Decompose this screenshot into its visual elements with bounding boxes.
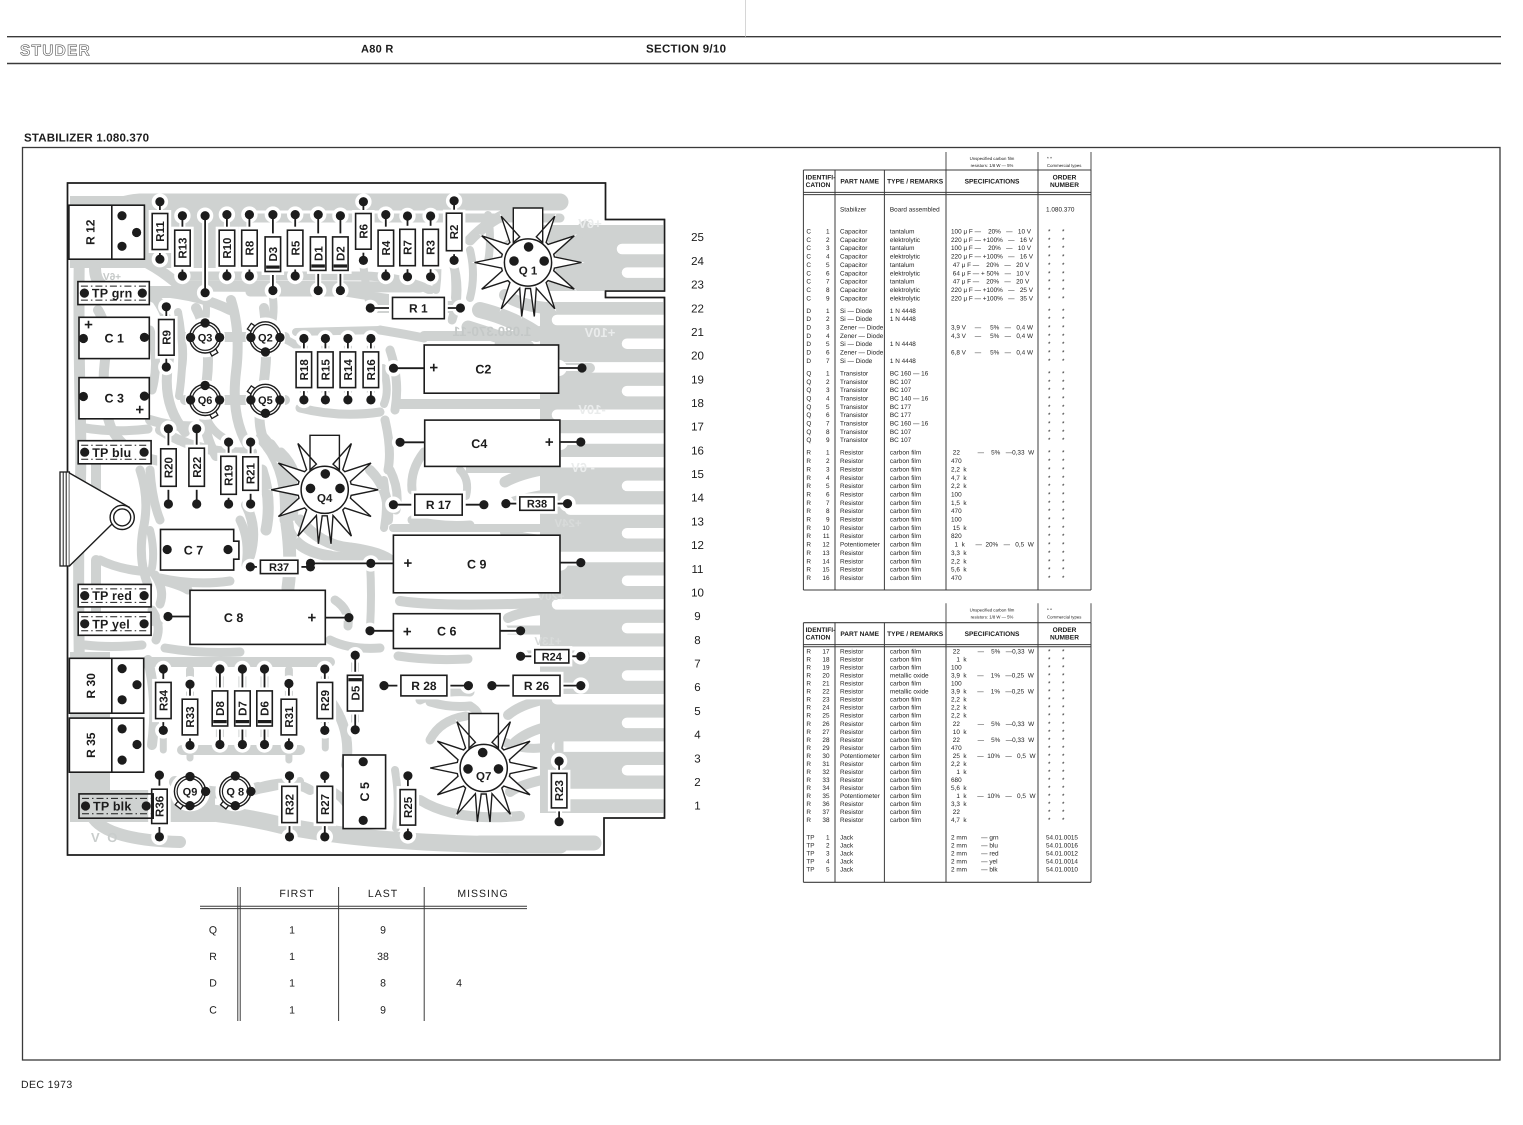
svg-text:carbon film: carbon film — [890, 801, 921, 808]
resistor R31 — [281, 675, 297, 753]
svg-text:22 — 5% —0,33 W: 22 — 5% —0,33 W — [951, 450, 1035, 457]
svg-text:BC 107: BC 107 — [890, 387, 912, 394]
svg-text:IDENTIFI-: IDENTIFI- — [806, 174, 836, 181]
svg-text:24: 24 — [822, 705, 830, 712]
header bottom rule — [7, 63, 1501, 65]
svg-text:D: D — [806, 358, 811, 365]
svg-text:6: 6 — [826, 492, 830, 499]
svg-text:R15: R15 — [321, 359, 333, 381]
svg-text:carbon film: carbon film — [890, 769, 921, 776]
svg-text:2: 2 — [826, 843, 830, 850]
svg-text:3: 3 — [826, 466, 830, 473]
svg-text:Q 8: Q 8 — [226, 787, 244, 799]
svg-text:34: 34 — [822, 785, 830, 792]
svg-text:35: 35 — [822, 793, 830, 800]
svg-text:Resistor: Resistor — [840, 475, 864, 482]
svg-text:19: 19 — [691, 374, 704, 386]
svg-text:4,7 k: 4,7 k — [951, 475, 967, 482]
resistor R23 — [551, 753, 567, 830]
svg-text:1: 1 — [694, 801, 700, 813]
svg-text:C: C — [806, 229, 811, 236]
capacitor C5 — [343, 755, 386, 829]
svg-text:9: 9 — [380, 1004, 386, 1016]
svg-text:C 7: C 7 — [184, 543, 204, 557]
diode D2 — [332, 208, 348, 299]
svg-text:D5: D5 — [350, 685, 362, 700]
svg-text:Stabilizer: Stabilizer — [840, 207, 867, 214]
svg-text:Capacitor: Capacitor — [840, 270, 868, 277]
svg-text:R: R — [806, 649, 811, 656]
svg-text:+: + — [545, 434, 554, 451]
svg-text:+10V: +10V — [584, 325, 615, 340]
svg-text:resistors: 1/8 W — 5%: resistors: 1/8 W — 5% — [971, 163, 1014, 168]
svg-text:1,5 k: 1,5 k — [951, 500, 967, 507]
svg-text:2: 2 — [826, 458, 830, 465]
svg-text:R36: R36 — [155, 796, 167, 817]
svg-text:elektrolytic: elektrolytic — [890, 270, 921, 277]
svg-text:R: R — [806, 550, 811, 557]
svg-text:carbon film: carbon film — [890, 508, 921, 515]
svg-text:Jack: Jack — [840, 858, 854, 865]
svg-text:NUMBER: NUMBER — [1050, 635, 1079, 642]
svg-text:13: 13 — [822, 550, 830, 557]
svg-text:carbon film: carbon film — [890, 713, 921, 720]
svg-text:R19: R19 — [224, 465, 236, 486]
svg-text:BC 160 — 16: BC 160 — 16 — [890, 370, 929, 377]
svg-text:Q: Q — [806, 379, 811, 386]
svg-text:C 5: C 5 — [358, 782, 372, 802]
svg-text:R: R — [806, 575, 811, 582]
svg-text:C: C — [806, 262, 811, 269]
svg-text:tantalum: tantalum — [890, 262, 915, 269]
svg-text:SPECIFICATIONS: SPECIFICATIONS — [965, 179, 1020, 186]
svg-text:R 35: R 35 — [84, 732, 98, 758]
svg-text:Capacitor: Capacitor — [840, 279, 868, 286]
svg-text:R4: R4 — [381, 240, 393, 255]
resistor R27 — [317, 768, 333, 846]
capacitor C1 — [79, 317, 150, 359]
svg-text:8: 8 — [826, 508, 830, 515]
svg-text:R33: R33 — [185, 706, 197, 727]
svg-text:19: 19 — [822, 665, 830, 672]
svg-text:3: 3 — [826, 245, 830, 252]
svg-text:carbon film: carbon film — [890, 475, 921, 482]
svg-text:Resistor: Resistor — [840, 500, 864, 507]
svg-text:Capacitor: Capacitor — [840, 295, 868, 302]
svg-text:+: + — [429, 360, 438, 377]
svg-text:IDENTIFI-: IDENTIFI- — [806, 627, 836, 634]
svg-text:TP: TP — [806, 835, 814, 842]
svg-text:R: R — [806, 713, 811, 720]
svg-text:R3: R3 — [426, 240, 438, 255]
svg-text:Resistor: Resistor — [840, 673, 864, 680]
svg-text:resistors: 1/8 W — 5%: resistors: 1/8 W — 5% — [971, 614, 1014, 619]
svg-text:Resistor: Resistor — [840, 550, 864, 557]
svg-text:- 6V: - 6V — [571, 460, 595, 475]
svg-text:C: C — [806, 254, 811, 261]
svg-text:Q3: Q3 — [198, 333, 213, 345]
svg-text:STABILIZER 1.080.370: STABILIZER 1.080.370 — [24, 133, 149, 145]
svg-text:R 26: R 26 — [524, 679, 550, 693]
svg-text:R: R — [806, 673, 811, 680]
test point TP red — [78, 584, 151, 607]
svg-text:2 mm — red: 2 mm — red — [951, 850, 999, 857]
svg-text:22: 22 — [951, 809, 960, 816]
resistor R33 — [182, 676, 198, 754]
svg-text:36: 36 — [822, 801, 830, 808]
svg-text:Transistor: Transistor — [840, 404, 869, 411]
svg-text:R 17: R 17 — [426, 498, 452, 512]
svg-text:carbon film: carbon film — [890, 550, 921, 557]
svg-text:18: 18 — [691, 398, 704, 410]
resistor R 28 — [376, 675, 477, 696]
svg-text:TP red: TP red — [92, 589, 132, 603]
svg-text:2: 2 — [826, 316, 830, 323]
svg-text:4: 4 — [826, 254, 830, 261]
svg-text:Resistor: Resistor — [840, 809, 864, 816]
svg-text:SECTION 9/10: SECTION 9/10 — [646, 44, 726, 56]
resistor R16 — [363, 330, 379, 408]
svg-text:elektrolytic: elektrolytic — [890, 237, 921, 244]
svg-text:metallic oxide: metallic oxide — [890, 673, 929, 680]
svg-text:2,2 k: 2,2 k — [951, 713, 967, 720]
svg-text:R: R — [806, 450, 811, 457]
svg-text:BC 107: BC 107 — [890, 379, 912, 386]
svg-text:C2: C2 — [475, 363, 491, 377]
svg-text:Zener — Diode: Zener — Diode — [840, 350, 884, 357]
svg-text:100: 100 — [951, 492, 962, 499]
svg-text:R: R — [806, 785, 811, 792]
svg-text:Potentiometer: Potentiometer — [840, 542, 881, 549]
svg-text:Resistor: Resistor — [840, 533, 864, 540]
svg-text:PART NAME: PART NAME — [840, 631, 879, 638]
svg-text:carbon film: carbon film — [890, 737, 921, 744]
svg-text:STUDER: STUDER — [20, 43, 91, 60]
svg-text:R24: R24 — [542, 651, 563, 663]
svg-text:R: R — [806, 517, 811, 524]
svg-text:carbon film: carbon film — [890, 525, 921, 532]
svg-text:R: R — [806, 777, 811, 784]
svg-text:D2: D2 — [336, 246, 348, 261]
resistor R2 — [446, 193, 462, 269]
svg-text:2,2 k: 2,2 k — [951, 761, 967, 768]
svg-text:6,8 V — 5% — 0,4 W: 6,8 V — 5% — 0,4 W — [951, 350, 1034, 357]
svg-text:tantalum: tantalum — [890, 279, 915, 286]
svg-text:64 μ F — + 50% — 10 V: 64 μ F — + 50% — 10 V — [951, 270, 1030, 277]
svg-text:25: 25 — [691, 232, 704, 244]
svg-text:carbon film: carbon film — [890, 517, 921, 524]
svg-text:R 12: R 12 — [84, 219, 98, 245]
svg-text:R: R — [806, 737, 811, 744]
page center tick — [745, 0, 747, 37]
svg-text:Transistor: Transistor — [840, 396, 869, 403]
svg-text:R 28: R 28 — [411, 679, 437, 693]
svg-text:Capacitor: Capacitor — [840, 262, 868, 269]
parts table 1 — [803, 152, 1091, 590]
svg-text:metallic oxide: metallic oxide — [890, 689, 929, 696]
svg-text:4: 4 — [826, 333, 830, 340]
svg-text:1: 1 — [289, 978, 295, 990]
resistor R13 — [174, 208, 190, 285]
svg-text:470: 470 — [951, 575, 962, 582]
resistor R22 — [189, 421, 205, 513]
svg-text:4,7 k: 4,7 k — [951, 817, 967, 824]
svg-text:R11: R11 — [155, 221, 167, 242]
svg-text:100 μ F — 20% — 10 V: 100 μ F — 20% — 10 V — [951, 245, 1032, 252]
svg-text:9: 9 — [826, 437, 830, 444]
svg-text:14: 14 — [822, 558, 830, 565]
svg-text:22 — 5% —0,33 W: 22 — 5% —0,33 W — [951, 649, 1035, 656]
svg-text:54.01.0014: 54.01.0014 — [1046, 858, 1078, 865]
svg-text:31: 31 — [822, 761, 830, 768]
svg-text:carbon film: carbon film — [890, 533, 921, 540]
svg-text:Unspecified carbon film: Unspecified carbon film — [970, 156, 1015, 161]
wire node W2 — [306, 555, 394, 571]
svg-text:carbon film: carbon film — [890, 753, 921, 760]
svg-text:Resistor: Resistor — [840, 745, 864, 752]
svg-text:+: + — [404, 555, 413, 572]
svg-text:9: 9 — [694, 611, 700, 623]
resistor R20 — [160, 421, 176, 513]
resistor R24 — [512, 648, 589, 664]
svg-text:1 k: 1 k — [951, 657, 967, 664]
svg-text:R: R — [806, 681, 811, 688]
svg-text:25: 25 — [822, 713, 830, 720]
svg-text:680: 680 — [951, 777, 962, 784]
svg-text:15: 15 — [691, 469, 704, 481]
svg-text:Jack: Jack — [840, 850, 854, 857]
svg-text:tantalum: tantalum — [890, 245, 915, 252]
svg-text:820: 820 — [951, 533, 962, 540]
resistor R15 — [317, 330, 333, 408]
svg-text:BC 177: BC 177 — [890, 412, 912, 419]
copper trace layer — [70, 196, 664, 845]
transistor Q8 — [215, 771, 255, 811]
svg-text:5,6 k: 5,6 k — [951, 567, 967, 574]
svg-text:Resistor: Resistor — [840, 681, 864, 688]
svg-text:TP: TP — [806, 866, 814, 873]
transistor Q3 — [185, 317, 225, 357]
transistor Q2 — [245, 317, 285, 357]
svg-text:1: 1 — [289, 1004, 295, 1016]
svg-text:Q: Q — [806, 429, 811, 436]
svg-text:1 k: 1 k — [951, 769, 967, 776]
svg-text:R: R — [806, 492, 811, 499]
header top rule — [7, 36, 1501, 38]
svg-text:7: 7 — [826, 279, 830, 286]
resistor R7 — [399, 208, 415, 285]
svg-text:Transistor: Transistor — [840, 370, 869, 377]
resistor R 1 — [362, 297, 469, 318]
resistor R37 — [242, 559, 319, 575]
svg-text:Si — Diode: Si — Diode — [840, 358, 873, 365]
svg-text:+: + — [135, 402, 144, 419]
svg-text:20: 20 — [822, 673, 830, 680]
svg-text:25 k — 10% — 0,5 W: 25 k — 10% — 0,5 W — [951, 753, 1036, 760]
svg-text:29: 29 — [822, 745, 830, 752]
diode D7 — [234, 661, 250, 753]
svg-text:Resistor: Resistor — [840, 697, 864, 704]
svg-text:R: R — [806, 769, 811, 776]
svg-text:Commercial types: Commercial types — [1047, 163, 1081, 168]
svg-text:Resistor: Resistor — [840, 713, 864, 720]
svg-text:carbon film: carbon film — [890, 649, 921, 656]
svg-text:1: 1 — [289, 925, 295, 937]
svg-text:R: R — [806, 745, 811, 752]
svg-text:38: 38 — [377, 951, 389, 963]
svg-text:2 mm — blu: 2 mm — blu — [951, 843, 998, 850]
svg-text:R: R — [806, 801, 811, 808]
svg-text:carbon film: carbon film — [890, 777, 921, 784]
svg-text:3: 3 — [694, 753, 700, 765]
resistor R6 — [355, 194, 371, 269]
svg-text:Q4: Q4 — [317, 493, 333, 505]
svg-text:+: + — [84, 317, 93, 334]
svg-text:Q5: Q5 — [258, 395, 273, 407]
svg-text:TP yel: TP yel — [92, 617, 130, 631]
svg-text:220 μ F — +100% — 35 V: 220 μ F — +100% — 35 V — [951, 295, 1034, 302]
svg-text:2 mm — grn: 2 mm — grn — [951, 835, 999, 842]
svg-text:carbon film: carbon film — [890, 809, 921, 816]
test point TP yel — [78, 612, 151, 635]
svg-text:Resistor: Resistor — [840, 567, 864, 574]
transistor Q7 — [427, 714, 540, 826]
svg-text:C: C — [806, 295, 811, 302]
svg-text:R22: R22 — [192, 457, 204, 478]
svg-text:47 μ F — 20% — 20 V: 47 μ F — 20% — 20 V — [951, 279, 1030, 286]
svg-text:Resistor: Resistor — [840, 483, 864, 490]
test point TP blk — [79, 794, 153, 818]
svg-text:+: + — [403, 623, 412, 640]
svg-text:R: R — [806, 657, 811, 664]
svg-text:27: 27 — [822, 729, 830, 736]
svg-text:100: 100 — [951, 665, 962, 672]
svg-text:MISSING: MISSING — [457, 888, 508, 900]
svg-text:220 μ F — +100% — 16 V: 220 μ F — +100% — 16 V — [951, 237, 1034, 244]
svg-text:carbon film: carbon film — [890, 466, 921, 473]
svg-text:BC 177: BC 177 — [890, 404, 912, 411]
svg-text:R21: R21 — [246, 462, 258, 484]
svg-text:16: 16 — [691, 445, 704, 457]
svg-text:R31: R31 — [284, 706, 296, 728]
svg-text:C: C — [806, 287, 811, 294]
svg-text:R: R — [806, 542, 811, 549]
svg-text:Q: Q — [806, 421, 811, 428]
svg-text:8: 8 — [826, 429, 830, 436]
svg-text:R2: R2 — [449, 225, 461, 240]
svg-text:Resistor: Resistor — [840, 450, 864, 457]
svg-text:R: R — [806, 525, 811, 532]
resistor R10 — [219, 206, 235, 284]
svg-text:Si — Diode: Si — Diode — [840, 341, 873, 348]
svg-text:2: 2 — [826, 379, 830, 386]
svg-text:3,3 k: 3,3 k — [951, 550, 967, 557]
svg-text:Q: Q — [806, 370, 811, 377]
svg-text:4: 4 — [826, 858, 830, 865]
svg-text:carbon film: carbon film — [890, 817, 921, 824]
svg-text:DEC 1973: DEC 1973 — [21, 1079, 73, 1091]
svg-text:Q: Q — [806, 404, 811, 411]
resistor R5 — [287, 206, 303, 284]
svg-text:Resistor: Resistor — [840, 649, 864, 656]
svg-text:carbon film: carbon film — [890, 761, 921, 768]
svg-text:C 3: C 3 — [104, 392, 124, 406]
test point TP blu — [78, 441, 151, 464]
svg-text:R: R — [806, 483, 811, 490]
svg-text:Board assembled: Board assembled — [890, 207, 940, 214]
svg-text:32: 32 — [822, 769, 830, 776]
svg-text:R: R — [806, 817, 811, 824]
svg-text:21: 21 — [822, 681, 830, 688]
svg-text:Q: Q — [806, 396, 811, 403]
svg-text:carbon film: carbon film — [890, 575, 921, 582]
capacitor C3 — [79, 378, 150, 419]
svg-text:3: 3 — [826, 325, 830, 332]
svg-text:470: 470 — [951, 508, 962, 515]
resistor R11 — [152, 194, 168, 268]
svg-text:Q: Q — [209, 925, 217, 937]
svg-text:21: 21 — [691, 327, 704, 339]
mounting bracket — [60, 472, 129, 566]
svg-text:3: 3 — [826, 850, 830, 857]
resistor R14 — [340, 330, 356, 408]
capacitor C9 — [393, 535, 585, 593]
resistor R9 — [158, 299, 174, 376]
svg-text:+6V: +6V — [578, 216, 602, 231]
svg-text:C 9: C 9 — [467, 558, 487, 572]
svg-text:54.01.0015: 54.01.0015 — [1046, 835, 1078, 842]
svg-text:3,9 k — 1% —0,25 W: 3,9 k — 1% —0,25 W — [951, 689, 1035, 696]
ghost studer logo — [466, 452, 561, 473]
svg-text:+24V: +24V — [554, 518, 582, 530]
svg-text:23: 23 — [822, 697, 830, 704]
svg-text:16: 16 — [822, 575, 830, 582]
svg-text:470: 470 — [951, 745, 962, 752]
svg-text:7: 7 — [826, 358, 830, 365]
svg-text:carbon film: carbon film — [890, 558, 921, 565]
diode D5 — [347, 647, 363, 738]
svg-text:Q: Q — [806, 387, 811, 394]
svg-text:3,9 V — 5% — 0,4 W: 3,9 V — 5% — 0,4 W — [951, 325, 1034, 332]
capacitor C6 — [362, 614, 525, 649]
svg-text:D: D — [806, 316, 811, 323]
svg-text:54.01.0012: 54.01.0012 — [1046, 850, 1078, 857]
svg-text:C 1: C 1 — [104, 332, 124, 346]
svg-text:22 — 5% —0,33 W: 22 — 5% —0,33 W — [951, 737, 1035, 744]
svg-text:TP: TP — [806, 850, 814, 857]
svg-text:15 k: 15 k — [951, 525, 967, 532]
svg-text:TP blu: TP blu — [92, 446, 131, 460]
svg-text:R27: R27 — [320, 794, 332, 815]
board outline — [68, 183, 665, 855]
svg-text:R9: R9 — [161, 330, 173, 345]
svg-text:Capacitor: Capacitor — [840, 229, 868, 236]
capacitor C7 — [161, 529, 239, 570]
svg-text:D6: D6 — [260, 701, 272, 716]
capacitor C4 — [392, 420, 586, 466]
svg-text:R 30: R 30 — [84, 673, 98, 699]
svg-text:4: 4 — [694, 730, 701, 742]
svg-text:4,3 V — 5% — 0,4 W: 4,3 V — 5% — 0,4 W — [951, 333, 1034, 340]
svg-text:R32: R32 — [285, 794, 297, 815]
svg-text:8: 8 — [826, 287, 830, 294]
transistor Q9 — [170, 771, 210, 811]
svg-text:R10: R10 — [222, 238, 234, 259]
capacitor C2 — [385, 345, 586, 393]
svg-text:15: 15 — [822, 567, 830, 574]
svg-text:tantalum: tantalum — [890, 229, 915, 236]
svg-text:C: C — [806, 270, 811, 277]
